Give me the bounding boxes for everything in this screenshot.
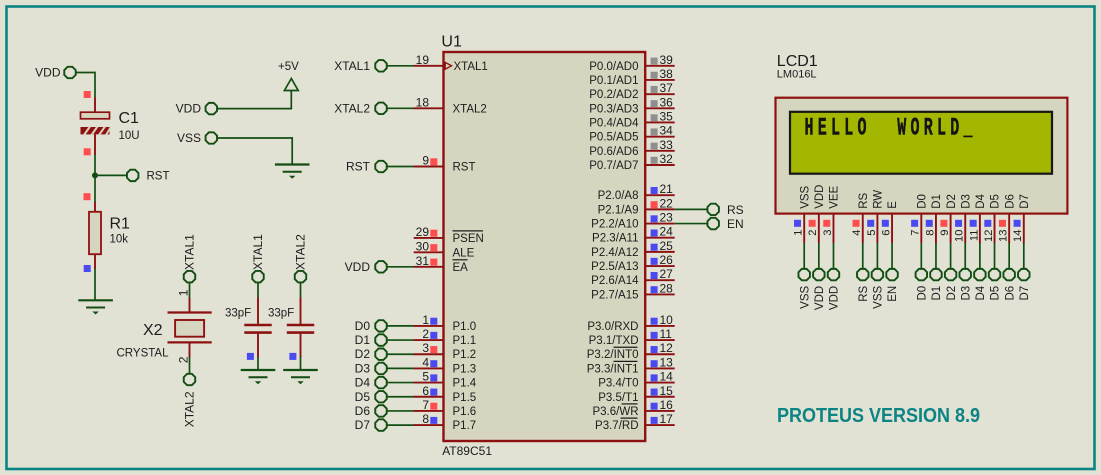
svg-text:3: 3 <box>422 341 429 355</box>
U1 pin 24 P2.3/A11 <box>592 225 675 245</box>
svg-text:EN: EN <box>727 217 744 231</box>
svg-text:2: 2 <box>176 356 190 363</box>
lcd pin 9 D2 / terminal D2 <box>939 194 958 300</box>
svg-text:29: 29 <box>416 225 430 239</box>
svg-text:D4: D4 <box>975 285 987 300</box>
svg-text:D0: D0 <box>355 319 371 333</box>
U1 pin 34 P0.5/AD5 <box>589 124 674 144</box>
wire 33pF cap 3 to ground <box>300 357 302 370</box>
wire C1 to junction <box>94 155 96 177</box>
svg-text:P2.2/A10: P2.2/A10 <box>591 219 638 231</box>
lcd pin 14 D7 / terminal D7 <box>1012 194 1031 300</box>
svg-text:8: 8 <box>924 230 936 236</box>
U1 pin 27 P2.6/A14 <box>591 267 675 287</box>
wire junction to RST terminal <box>95 174 127 176</box>
svg-text:7: 7 <box>910 230 922 236</box>
svg-text:RS: RS <box>858 192 870 208</box>
lcd pin 8 D1 / terminal D1 <box>924 194 943 300</box>
U1 pin 2 P1.1 / terminal D1 <box>355 327 477 347</box>
svg-text:RS: RS <box>727 203 744 217</box>
svg-text:D7: D7 <box>355 418 371 432</box>
terminal RS <box>707 203 743 217</box>
lcd screen with HELLO WORLD <box>790 112 1052 174</box>
svg-text:4: 4 <box>851 230 863 236</box>
svg-text:11: 11 <box>968 230 980 242</box>
svg-text:VDD: VDD <box>345 260 371 274</box>
svg-text:EN: EN <box>887 286 899 302</box>
U1 pin 17 P3.7/RD <box>595 412 675 432</box>
svg-text:P3.5/T1: P3.5/T1 <box>598 392 638 404</box>
svg-text:XTAL1: XTAL1 <box>454 61 488 73</box>
svg-text:E: E <box>887 201 899 209</box>
svg-text:P1.2: P1.2 <box>453 349 477 361</box>
U1 pin 16 P3.6/WR <box>592 398 674 418</box>
power +5V <box>278 61 299 109</box>
svg-text:P3.7/RD: P3.7/RD <box>595 420 638 432</box>
svg-text:D2: D2 <box>946 286 958 301</box>
svg-text:28: 28 <box>660 281 674 295</box>
U1 pin 5 P1.4 / terminal D4 <box>355 370 477 390</box>
U1 pin 15 P3.5/T1 <box>598 384 674 404</box>
U1 pin 14 P3.4/T0 <box>598 370 674 390</box>
svg-text:VDD: VDD <box>814 286 826 310</box>
svg-text:P0.5/AD5: P0.5/AD5 <box>589 132 638 144</box>
svg-text:P0.6/AD6: P0.6/AD6 <box>589 146 638 158</box>
capacitor C1 10U <box>81 91 140 155</box>
svg-text:VDD: VDD <box>829 286 841 310</box>
svg-text:P2.5/A13: P2.5/A13 <box>591 261 638 273</box>
svg-text:P1.7: P1.7 <box>453 420 477 432</box>
wire R1 to ground <box>94 269 96 301</box>
U1 pin 11 P3.1/TXD <box>589 327 675 347</box>
lcd pin 3 VEE / terminal VDD <box>822 185 841 310</box>
svg-text:ALE: ALE <box>453 247 475 259</box>
svg-text:D1: D1 <box>931 194 943 209</box>
svg-text:P2.7/A15: P2.7/A15 <box>591 289 638 301</box>
lcd LCD1 LM016L label <box>777 53 818 81</box>
U1 pin 21 P2.0/A8 <box>598 182 675 202</box>
svg-text:38: 38 <box>660 67 674 81</box>
svg-text:+5V: +5V <box>278 61 299 73</box>
svg-text:VDD: VDD <box>814 185 826 209</box>
svg-text:P0.0/AD0: P0.0/AD0 <box>589 61 638 73</box>
svg-text:10: 10 <box>954 230 966 242</box>
svg-text:P0.7/AD7: P0.7/AD7 <box>589 160 638 172</box>
svg-text:XTAL1: XTAL1 <box>334 59 370 73</box>
svg-text:R1: R1 <box>110 216 131 233</box>
terminal XTAL2 (crystal bottom) <box>182 374 196 428</box>
terminal EN <box>707 217 743 231</box>
ground (below 33pF cap 3) <box>283 370 318 384</box>
resistor R1 10k <box>84 193 131 272</box>
svg-text:D1: D1 <box>931 286 943 301</box>
svg-text:10k: 10k <box>110 234 129 246</box>
svg-text:18: 18 <box>416 95 430 109</box>
svg-text:D7: D7 <box>1019 194 1031 209</box>
svg-text:23: 23 <box>660 211 674 225</box>
ic U1 AT89C51 body <box>441 34 645 459</box>
pin 2 label (crystal) <box>176 356 190 363</box>
svg-text:P3.4/T0: P3.4/T0 <box>598 378 638 390</box>
svg-text:10U: 10U <box>119 130 140 142</box>
svg-text:P3.2/INT0: P3.2/INT0 <box>587 349 639 361</box>
svg-text:U1: U1 <box>441 34 462 51</box>
U1 pin 32 P0.7/AD7 <box>589 152 674 172</box>
svg-text:P3.1/TXD: P3.1/TXD <box>589 335 639 347</box>
wire VDD to C1 <box>76 72 95 98</box>
svg-text:PROTEUS VERSION 8.9: PROTEUS VERSION 8.9 <box>777 405 980 427</box>
svg-text:P1.6: P1.6 <box>453 406 477 418</box>
svg-text:P2.1/A9: P2.1/A9 <box>598 204 639 216</box>
svg-text:RS: RS <box>858 285 870 301</box>
U1 pin 13 P3.3/INT1 <box>587 355 675 375</box>
svg-text:1: 1 <box>176 289 190 296</box>
svg-text:D5: D5 <box>990 194 1002 209</box>
lcd pin 12 D5 / terminal D5 <box>983 194 1002 300</box>
svg-text:4: 4 <box>422 355 429 369</box>
svg-text:D1: D1 <box>355 333 371 347</box>
svg-text:VSS: VSS <box>799 185 811 208</box>
svg-text:37: 37 <box>660 81 674 95</box>
svg-text:VSS: VSS <box>799 285 811 308</box>
wire VSS to ground <box>217 137 292 164</box>
terminal XTAL1 (crystal top) <box>182 234 196 283</box>
U1 pin 33 P0.6/AD6 <box>589 138 674 158</box>
svg-text:P3.6/WR: P3.6/WR <box>592 406 638 418</box>
svg-text:AT89C51: AT89C51 <box>442 444 492 458</box>
svg-text:XTAL2: XTAL2 <box>294 234 308 270</box>
svg-text:VSS: VSS <box>873 285 885 308</box>
U1 pin 26 P2.5/A13 <box>591 253 675 273</box>
svg-text:XTAL2: XTAL2 <box>182 391 196 427</box>
U1 pin 9 RST <box>346 154 476 174</box>
U1 pin 7 P1.6 / terminal D6 <box>355 398 477 418</box>
svg-text:14: 14 <box>1012 230 1024 242</box>
svg-text:VEE: VEE <box>829 185 841 208</box>
svg-text:13: 13 <box>998 230 1010 242</box>
svg-text:D6: D6 <box>1004 286 1016 301</box>
lcd pin 10 D3 / terminal D3 <box>954 194 973 300</box>
lcd pin 2 VDD / terminal VDD <box>807 185 826 311</box>
svg-text:36: 36 <box>660 95 674 109</box>
svg-text:D5: D5 <box>355 390 371 404</box>
svg-text:21: 21 <box>660 182 674 196</box>
svg-text:1: 1 <box>793 230 805 236</box>
svg-text:D5: D5 <box>990 286 1002 301</box>
svg-text:P3.3/INT1: P3.3/INT1 <box>587 363 639 375</box>
svg-text:D0: D0 <box>917 194 929 209</box>
svg-text:19: 19 <box>416 53 430 67</box>
U1 pin 19 XTAL1 <box>334 53 488 73</box>
crystal X2 <box>117 298 212 360</box>
svg-text:P1.5: P1.5 <box>453 392 477 404</box>
svg-text:14: 14 <box>660 370 674 384</box>
svg-text:D2: D2 <box>355 347 371 361</box>
svg-text:8: 8 <box>422 412 429 426</box>
svg-text:16: 16 <box>660 398 674 412</box>
svg-text:12: 12 <box>660 341 674 355</box>
svg-text:10: 10 <box>660 313 674 327</box>
svg-text:P1.1: P1.1 <box>453 335 477 347</box>
svg-text:D3: D3 <box>355 361 371 375</box>
svg-text:LM016L: LM016L <box>777 69 817 81</box>
svg-text:P0.4/AD4: P0.4/AD4 <box>589 117 639 129</box>
svg-text:15: 15 <box>660 384 674 398</box>
wire crystal to XTAL2 <box>189 357 191 374</box>
U1 pin 10 P3.0/RXD <box>587 313 674 333</box>
svg-text:32: 32 <box>660 152 674 166</box>
svg-text:C1: C1 <box>119 110 140 127</box>
capacitor C2 33pF <box>225 283 272 360</box>
svg-text:2: 2 <box>422 327 429 341</box>
pin 1 label (crystal) <box>176 289 190 296</box>
svg-text:33pF: 33pF <box>268 308 294 320</box>
svg-text:33: 33 <box>660 138 674 152</box>
svg-text:7: 7 <box>422 398 429 412</box>
svg-text:XTAL1: XTAL1 <box>182 234 196 270</box>
U1 pin 4 P1.3 / terminal D3 <box>355 355 477 375</box>
svg-text:6: 6 <box>422 384 429 398</box>
U1 pin 22 P2.1/A9 <box>598 196 708 216</box>
ground (below R1) <box>78 300 113 314</box>
svg-text:3: 3 <box>822 230 834 236</box>
terminal XTAL2 (33pF cap 3) <box>294 234 308 283</box>
U1 pin 6 P1.5 / terminal D5 <box>355 384 477 404</box>
svg-text:D0: D0 <box>917 286 929 301</box>
ground (below 33pF cap 2) <box>241 370 276 384</box>
capacitor C3 33pF <box>268 283 314 360</box>
U1 pin 31 EA <box>345 254 469 274</box>
svg-text:X2: X2 <box>143 322 163 339</box>
svg-text:22: 22 <box>660 196 674 210</box>
svg-text:17: 17 <box>660 412 674 426</box>
svg-text:VSS: VSS <box>177 131 201 145</box>
svg-text:P1.0: P1.0 <box>453 321 477 333</box>
svg-text:P1.3: P1.3 <box>453 363 477 375</box>
lcd pin 5 RW / terminal VSS <box>866 190 885 309</box>
svg-text:D3: D3 <box>960 194 972 209</box>
terminal RST (left) <box>127 170 170 183</box>
wire XTAL1 to crystal <box>189 283 191 299</box>
lcd pin 11 D4 / terminal D4 <box>968 193 987 300</box>
svg-text:9: 9 <box>939 230 951 236</box>
U1 pin 8 P1.7 / terminal D7 <box>355 412 477 432</box>
svg-text:VDD: VDD <box>176 102 202 116</box>
terminal VDD (power rail) <box>176 102 217 116</box>
U1 pin 3 P1.2 / terminal D2 <box>355 341 477 361</box>
svg-text:5: 5 <box>866 230 878 236</box>
wire VDD to +5V <box>217 108 292 110</box>
svg-text:39: 39 <box>660 53 674 67</box>
svg-text:P3.0/RXD: P3.0/RXD <box>587 321 638 333</box>
lcd pin 7 D0 / terminal D0 <box>910 194 929 300</box>
svg-text:P2.0/A8: P2.0/A8 <box>598 190 639 202</box>
lcd pin 1 VSS / terminal VSS <box>793 185 812 308</box>
svg-text:34: 34 <box>660 124 674 138</box>
svg-text:31: 31 <box>416 254 430 268</box>
svg-text:XTAL2: XTAL2 <box>334 101 370 115</box>
wire 33pF cap 2 to ground <box>257 357 259 370</box>
svg-text:P0.1/AD1: P0.1/AD1 <box>589 75 638 87</box>
svg-text:P2.4/A12: P2.4/A12 <box>591 247 638 259</box>
svg-text:RST: RST <box>453 162 476 174</box>
terminal VSS <box>177 131 217 145</box>
svg-text:33pF: 33pF <box>225 308 251 320</box>
svg-text:CRYSTAL: CRYSTAL <box>117 348 170 360</box>
svg-text:P0.3/AD3: P0.3/AD3 <box>589 103 638 115</box>
U1 pin 29 PSEN <box>414 225 484 245</box>
terminal XTAL1 (33pF cap 2) <box>251 234 265 283</box>
ground (below VSS) <box>275 165 310 179</box>
U1 pin 36 P0.3/AD3 <box>589 95 674 115</box>
svg-text:30: 30 <box>416 239 430 253</box>
U1 pin 12 P3.2/INT0 <box>587 341 675 361</box>
svg-text:13: 13 <box>660 355 674 369</box>
terminal VDD (top left) <box>35 66 76 80</box>
svg-text:PSEN: PSEN <box>453 233 484 245</box>
lcd pin 4 RS / terminal RS <box>851 192 870 301</box>
svg-text:5: 5 <box>422 370 429 384</box>
svg-text:2: 2 <box>807 230 819 236</box>
svg-text:9: 9 <box>422 154 429 168</box>
U1 pin 1 P1.0 / terminal D0 <box>355 313 477 333</box>
svg-text:VDD: VDD <box>35 66 61 80</box>
svg-text:RW: RW <box>873 190 885 209</box>
wire junction to R1 <box>94 175 96 202</box>
svg-text:XTAL2: XTAL2 <box>453 103 487 115</box>
U1 pin 39 P0.0/AD0 <box>589 53 674 73</box>
svg-text:P0.2/AD2: P0.2/AD2 <box>589 89 638 101</box>
svg-text:D6: D6 <box>355 404 371 418</box>
svg-text:RST: RST <box>346 160 371 174</box>
svg-text:P2.6/A14: P2.6/A14 <box>591 275 639 287</box>
svg-text:27: 27 <box>660 267 674 281</box>
U1 pin 37 P0.2/AD2 <box>589 81 674 101</box>
svg-text:D6: D6 <box>1004 194 1016 209</box>
svg-text:25: 25 <box>660 239 674 253</box>
node RST junction <box>92 172 98 178</box>
lcd pin 6 E / terminal EN <box>880 201 899 302</box>
svg-text:RST: RST <box>147 171 170 183</box>
svg-text:12: 12 <box>983 230 995 242</box>
svg-text:P2.3/A11: P2.3/A11 <box>592 233 638 245</box>
svg-text:EA: EA <box>453 262 469 274</box>
text PROTEUS VERSION 8.9 <box>777 405 980 427</box>
svg-text:LCD1: LCD1 <box>777 53 818 70</box>
U1 pin 18 XTAL2 <box>334 95 487 115</box>
svg-text:D3: D3 <box>960 286 972 301</box>
lcd pin 13 D6 / terminal D6 <box>998 194 1017 300</box>
svg-text:XTAL1: XTAL1 <box>251 234 265 270</box>
svg-text:26: 26 <box>660 253 674 267</box>
svg-text:D7: D7 <box>1019 286 1031 301</box>
svg-text:P1.4: P1.4 <box>453 378 477 390</box>
svg-text:1: 1 <box>422 313 429 327</box>
svg-text:35: 35 <box>660 109 674 123</box>
svg-text:D4: D4 <box>355 376 371 390</box>
svg-text:D4: D4 <box>975 193 987 208</box>
svg-text:6: 6 <box>880 230 892 236</box>
U1 pin 35 P0.4/AD4 <box>589 109 674 129</box>
lcd LM016L body <box>776 98 1068 214</box>
svg-text:11: 11 <box>660 327 673 341</box>
U1 pin 25 P2.4/A12 <box>591 239 675 259</box>
svg-text:24: 24 <box>660 225 674 239</box>
U1 pin 28 P2.7/A15 <box>591 281 675 301</box>
U1 pin 30 ALE <box>414 239 475 259</box>
svg-text:D2: D2 <box>946 194 958 209</box>
U1 pin 23 P2.2/A10 <box>591 211 707 231</box>
U1 pin 38 P0.1/AD1 <box>589 67 674 87</box>
